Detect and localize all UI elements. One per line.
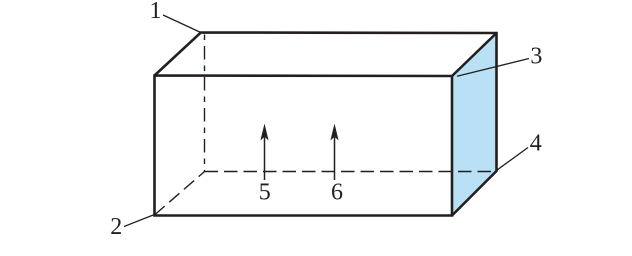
svg-text:4: 4	[530, 131, 542, 157]
svg-text:2: 2	[110, 214, 122, 240]
svg-text:3: 3	[530, 44, 542, 70]
svg-text:5: 5	[259, 180, 271, 206]
svg-text:6: 6	[331, 180, 343, 206]
svg-text:1: 1	[150, 0, 162, 24]
